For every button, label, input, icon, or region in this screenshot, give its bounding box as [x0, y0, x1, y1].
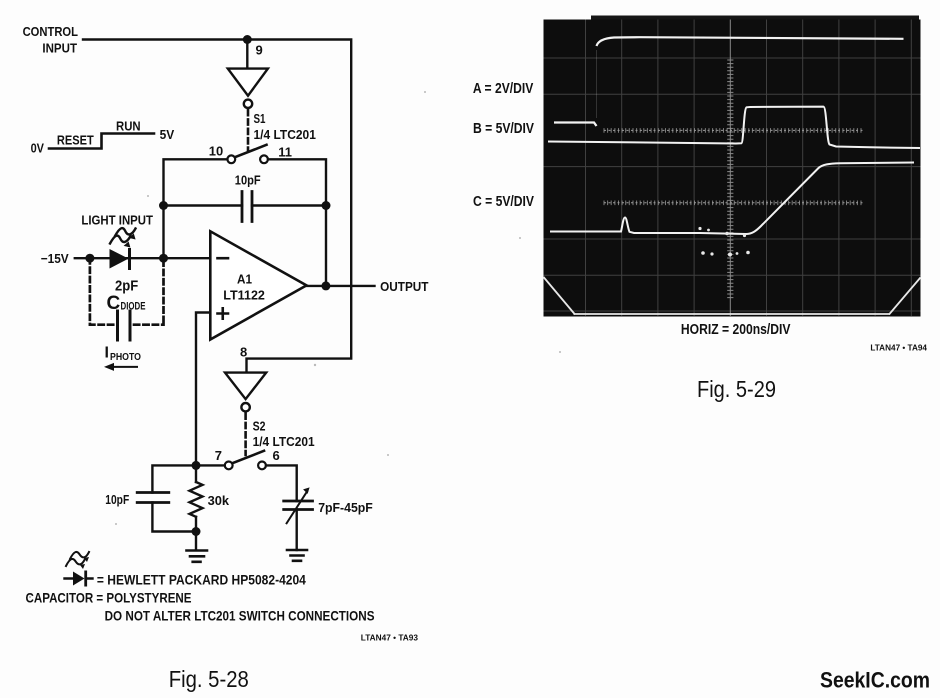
svg-text:OUTPUT: OUTPUT — [380, 279, 428, 294]
svg-text:I: I — [105, 345, 109, 362]
wire dashed S1 control — [247, 110, 250, 150]
junction left cap — [159, 201, 168, 210]
graticule center vertical with ticks — [727, 20, 733, 317]
op-amp A1 LT1122 — [210, 231, 306, 339]
svg-text:S1: S1 — [254, 111, 266, 126]
svg-text:2pF: 2pF — [115, 278, 138, 294]
svg-text:Fig. 5-28: Fig. 5-28 — [169, 666, 249, 692]
svg-text:−15V: −15V — [41, 251, 69, 266]
svg-text:B = 5V/DIV: B = 5V/DIV — [473, 121, 534, 137]
resistor R1 30k — [190, 465, 203, 549]
photodiode D1 — [110, 248, 132, 270]
svg-text:LTAN47 • TA94: LTAN47 • TA94 — [870, 344, 927, 353]
svg-text:11: 11 — [278, 144, 292, 159]
junction dashed box left — [85, 254, 94, 263]
capacitor C2 10pF plates — [137, 493, 169, 503]
svg-text:5V: 5V — [160, 127, 175, 142]
svg-text:7pF-45pF: 7pF-45pF — [318, 500, 373, 515]
trace B — [548, 107, 920, 148]
legend light arrows — [66, 552, 89, 569]
svg-text:INPUT: INPUT — [42, 41, 77, 56]
wire dashed S2 control — [244, 414, 247, 456]
C3 arrow — [287, 487, 310, 523]
wire C3 bottom — [296, 510, 298, 551]
svg-text:LIGHT INPUT: LIGHT INPUT — [81, 213, 153, 228]
svg-text:C: C — [107, 293, 121, 314]
dashed box C_DIODE — [90, 258, 164, 325]
junction left diode node — [159, 254, 168, 263]
svg-text:10pF: 10pF — [105, 492, 129, 507]
graticule tick row C — [604, 201, 864, 206]
graticule horizontal lines — [544, 58, 921, 311]
svg-text:LT1122: LT1122 — [223, 288, 265, 303]
wire output — [307, 285, 375, 287]
svg-text:C = 5V/DIV: C = 5V/DIV — [473, 194, 534, 210]
graticule vertical lines — [586, 20, 912, 317]
ground G2 — [287, 550, 307, 561]
graticule tick row B — [604, 128, 864, 133]
switch S2 — [225, 451, 266, 470]
switch S1 — [227, 145, 267, 163]
svg-text:8: 8 — [240, 345, 247, 360]
capacitor C1 10pF wires — [164, 204, 327, 206]
wire S1 left to loop — [164, 159, 228, 258]
junction right cap — [322, 201, 331, 210]
op-amp minus sign — [218, 257, 229, 260]
wire S2 right to C3 — [266, 465, 297, 501]
trace C noise specks — [698, 227, 749, 257]
node CONTROL INPUT label — [23, 24, 78, 56]
wire S1 right to loop — [268, 159, 326, 286]
svg-text:S2: S2 — [253, 419, 266, 434]
wire control input net — [83, 40, 351, 373]
capacitor C1 10pF plates — [242, 192, 252, 222]
junction R1 bottom — [192, 527, 201, 536]
svg-text:1/4 LTC201: 1/4 LTC201 — [254, 127, 316, 142]
svg-text:30k: 30k — [208, 493, 230, 508]
op-amp plus sign — [218, 308, 229, 318]
svg-text:HORIZ = 200ns/DIV: HORIZ = 200ns/DIV — [681, 322, 791, 338]
wire junction to C2 — [152, 465, 196, 492]
trace A — [554, 37, 904, 126]
svg-text:PHOTO: PHOTO — [110, 351, 141, 363]
junction output — [321, 281, 330, 290]
RESET/RUN waveform — [49, 134, 154, 149]
scope photo bottom border — [544, 277, 921, 315]
svg-text:1/4 LTC201: 1/4 LTC201 — [253, 434, 315, 449]
junction plus input — [192, 461, 201, 470]
svg-text:9: 9 — [256, 43, 263, 58]
svg-text:SeekIC.com: SeekIC.com — [820, 668, 930, 693]
legend diode symbol — [65, 571, 93, 587]
scope photo background — [544, 20, 921, 317]
inverter U1a (drives S1) — [228, 69, 268, 108]
junction control/inverter — [243, 35, 252, 44]
svg-text:7: 7 — [215, 448, 222, 463]
svg-text:RESET: RESET — [57, 133, 94, 148]
wire -15V to opamp — [75, 257, 211, 259]
svg-text:A = 2V/DIV: A = 2V/DIV — [473, 81, 534, 97]
svg-text:0V: 0V — [31, 141, 45, 156]
svg-text:10: 10 — [209, 143, 223, 158]
C_DIODE label — [107, 293, 146, 314]
wire stub to inverter 9 — [246, 40, 248, 69]
variable capacitor C3 plates — [284, 501, 313, 510]
svg-text:CONTROL: CONTROL — [23, 24, 78, 39]
I_PHOTO label — [105, 345, 142, 363]
I_PHOTO arrow — [104, 363, 137, 371]
scope photo top strip — [591, 16, 919, 20]
svg-text:A1: A1 — [237, 272, 252, 287]
wire S2 left — [196, 464, 225, 466]
inverter U1b (drives S2) — [225, 373, 266, 412]
wire plus input — [196, 313, 210, 466]
svg-text:CAPACITOR = POLYSTYRENE: CAPACITOR = POLYSTYRENE — [26, 589, 192, 605]
svg-text:= HEWLETT PACKARD HP5082-4204: = HEWLETT PACKARD HP5082-4204 — [97, 572, 306, 588]
svg-text:LTAN47 • TA93: LTAN47 • TA93 — [361, 633, 419, 642]
svg-text:RUN: RUN — [116, 119, 141, 134]
svg-text:10pF: 10pF — [235, 173, 261, 188]
C_DIODE plates — [118, 311, 131, 340]
ground G1 — [187, 551, 208, 562]
trace C — [550, 163, 914, 235]
svg-text:DIODE: DIODE — [121, 301, 146, 313]
svg-text:6: 6 — [273, 448, 280, 463]
svg-text:Fig. 5-29: Fig. 5-29 — [697, 376, 776, 402]
svg-text:DO NOT ALTER LTC201 SWITCH CON: DO NOT ALTER LTC201 SWITCH CONNECTIONS — [105, 608, 375, 624]
wire C2 bottom — [152, 503, 196, 532]
light arrows — [110, 228, 136, 247]
